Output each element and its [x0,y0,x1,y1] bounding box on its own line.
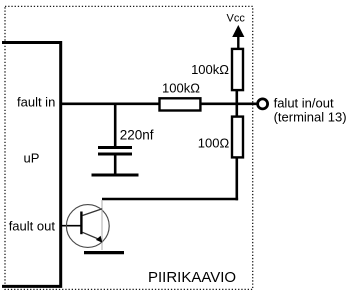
svg-text:fault in: fault in [17,95,55,110]
wire 100 ohm resistor down to collector net [236,157,239,200]
wire Vcc to pull-up resistor [237,36,239,49]
svg-text:PIIRIKAAVIO: PIIRIKAAVIO [148,269,236,286]
wire capacitor drop from fault-in net [114,103,117,147]
svg-text:uP: uP [24,151,40,166]
wire pull-up resistor to junction [236,90,239,117]
transistor Q1 base bar [80,212,82,235]
resistor 100 ohm (vertical body) [232,117,243,158]
wire capacitor to ground [114,154,117,175]
power symbol Vcc arrow [232,25,244,37]
transistor Q1 collector stroke [83,209,103,216]
svg-text:100Ω: 100Ω [198,135,230,150]
wire collector/emitter vertical (thin) [101,200,103,250]
capacitor 220nf bottom plate [98,153,132,156]
transistor Q1 body circle [66,205,109,248]
svg-text:fault out: fault out [9,218,56,233]
transistor Q1 emitter arrowhead [96,236,103,243]
dotted schematic boundary frame [5,6,253,289]
resistor R-series 100k (horizontal body) [160,98,201,110]
ground bar below capacitor [92,174,139,177]
microcontroller block uP [2,43,61,287]
svg-text:(terminal 13): (terminal 13) [274,109,347,124]
transistor Q1 emitter stroke [83,232,100,239]
svg-text:100kΩ: 100kΩ [162,81,200,96]
svg-text:100kΩ: 100kΩ [191,62,229,77]
capacitor 220nf top plate [98,146,132,149]
wire base from uP fault out [61,225,81,227]
terminal pad falut in/out [258,99,268,109]
resistor pull-up 100k (vertical body) [232,49,243,90]
ground bar below transistor emitter [84,251,124,254]
wire fault-in net (uP to terminal) [62,103,257,106]
svg-text:Vcc: Vcc [227,13,246,25]
svg-text:falut in/out: falut in/out [274,95,334,110]
wire collector net horizontal run [102,198,238,201]
svg-text:220nf: 220nf [120,127,154,142]
